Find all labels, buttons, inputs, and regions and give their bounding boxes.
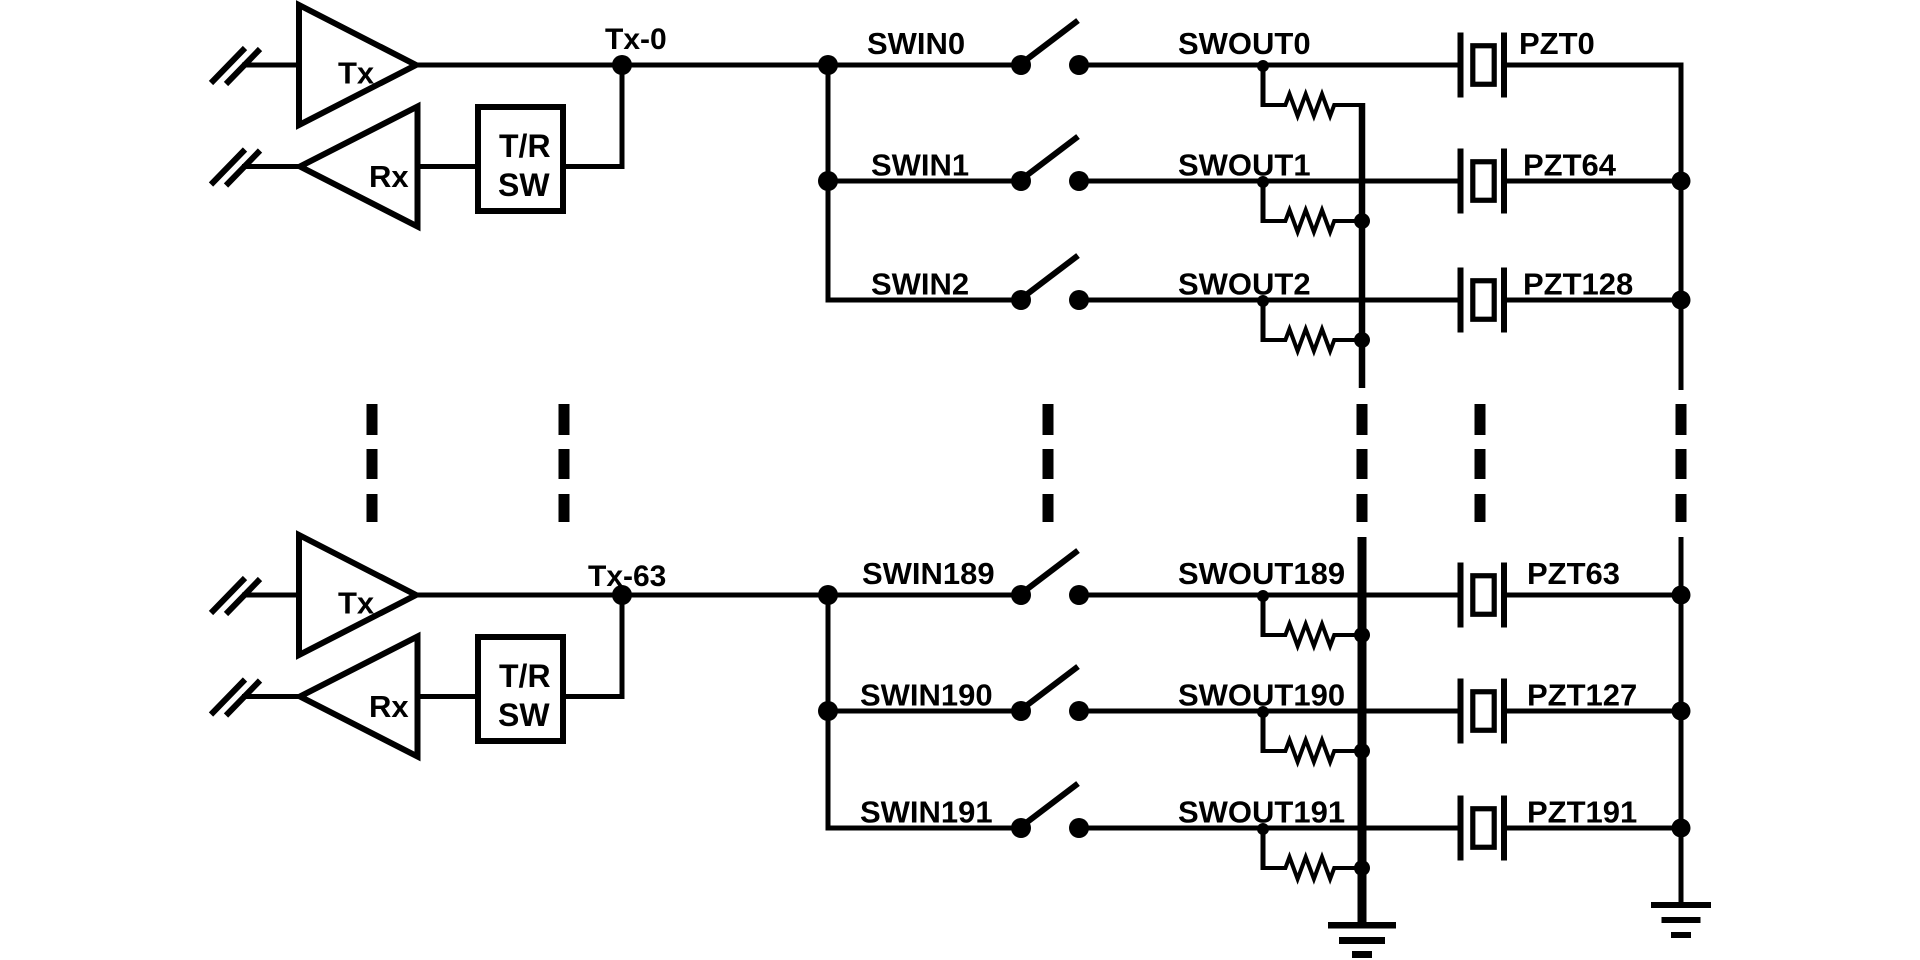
junction left bus row2 (top)	[818, 171, 838, 191]
svg-text:SWIN190: SWIN190	[860, 678, 993, 713]
junction resistor SWOUT190 to bias bus	[1354, 743, 1370, 759]
piezo element PZT63	[1461, 563, 1505, 628]
svg-text:SWOUT0: SWOUT0	[1178, 26, 1311, 61]
wire T/R SW to node (bottom)	[563, 595, 622, 697]
switch SWIN191	[1011, 784, 1089, 839]
junction left bus row2 (bottom)	[818, 701, 838, 721]
resistor R-SWOUT190	[1263, 740, 1362, 762]
ellipsis dashed column (amplifiers)	[367, 404, 378, 522]
wire right bus bottom segment	[1679, 537, 1684, 903]
junction right bus PZT64	[1672, 172, 1691, 191]
switch SWIN0	[1011, 21, 1089, 76]
junction tap SWOUT2	[1257, 295, 1269, 307]
wire tap drop SWOUT2	[1261, 300, 1266, 342]
svg-text:SWIN2: SWIN2	[871, 267, 969, 302]
wire PZT0 to right bus	[1504, 63, 1684, 68]
bus slash marks top Rx input	[211, 150, 260, 186]
wire left bus (top)	[826, 65, 831, 300]
wire tap drop SWOUT0	[1261, 65, 1266, 107]
wire bottom Rx input stub	[242, 694, 300, 699]
svg-text:Tx: Tx	[338, 56, 375, 91]
ellipsis dashed column (right bus)	[1676, 404, 1687, 522]
wire PZT127 to right bus	[1504, 709, 1684, 714]
svg-text:PZT128: PZT128	[1523, 267, 1633, 302]
wire SWOUT190 row	[1079, 709, 1461, 714]
junction resistor SWOUT191 to bias bus	[1354, 860, 1370, 876]
junction tap SWOUT191	[1257, 823, 1269, 835]
svg-text:SW: SW	[498, 697, 550, 733]
svg-text:SWIN191: SWIN191	[860, 795, 993, 830]
piezo element PZT127	[1461, 679, 1505, 744]
bus slash marks top Tx input	[211, 48, 260, 84]
svg-text:SWIN189: SWIN189	[862, 556, 995, 591]
piezo element PZT128	[1461, 268, 1505, 333]
wire SWIN191 row	[826, 826, 1022, 831]
wire top Rx input stub	[242, 164, 300, 169]
wire bottom Tx input stub	[242, 593, 300, 598]
wire tap drop SWOUT189	[1261, 595, 1266, 637]
junction resistor SWOUT2 to bias bus	[1354, 332, 1370, 348]
svg-text:PZT127: PZT127	[1527, 678, 1637, 713]
ground (bias bus)	[1328, 922, 1396, 958]
wire PZT64 to right bus	[1504, 179, 1684, 184]
piezo element PZT0	[1461, 33, 1505, 98]
svg-text:PZT191: PZT191	[1527, 795, 1637, 830]
junction right bus PZT63	[1672, 586, 1691, 605]
wire SWOUT189 row	[1079, 593, 1461, 598]
wire bias bus top segment	[1359, 103, 1366, 388]
switch SWIN1	[1011, 137, 1089, 192]
wire PZT191 to right bus	[1504, 826, 1684, 831]
wire T/R SW to node (top)	[563, 65, 622, 167]
junction tap SWOUT0	[1257, 60, 1269, 72]
resistor R-SWOUT191	[1263, 857, 1362, 879]
node Tx-0	[605, 23, 667, 75]
svg-text:Rx: Rx	[369, 689, 409, 724]
svg-text:Rx: Rx	[369, 159, 409, 194]
wire top Tx input stub	[242, 63, 300, 68]
wire bias bus bottom segment	[1358, 537, 1367, 922]
junction resistor SWOUT1 to bias bus	[1354, 213, 1370, 229]
piezo element PZT64	[1461, 149, 1505, 214]
wire Rx to T/R SW (top)	[418, 164, 479, 169]
wire Rx to T/R SW (bottom)	[418, 694, 479, 699]
svg-text:SWOUT189: SWOUT189	[1178, 556, 1345, 591]
svg-text:SWOUT2: SWOUT2	[1178, 267, 1311, 302]
wire right bus top segment	[1679, 63, 1684, 391]
wire tap drop SWOUT1	[1261, 181, 1266, 223]
junction resistor SWOUT189 to bias bus	[1354, 627, 1370, 643]
wire SWIN2 row	[826, 298, 1022, 303]
junction right bus PZT127	[1672, 702, 1691, 721]
svg-text:SW: SW	[498, 167, 550, 203]
switch SWIN190	[1011, 667, 1089, 722]
wire tap drop SWOUT190	[1261, 711, 1266, 753]
ellipsis dashed column (piezo)	[1475, 404, 1486, 522]
ellipsis dashed column (bias bus)	[1357, 404, 1368, 522]
svg-text:PZT0: PZT0	[1519, 26, 1595, 61]
amplifier Rx (bottom)	[300, 637, 418, 757]
wire left bus (bottom)	[826, 595, 831, 828]
junction right bus PZT128	[1672, 291, 1691, 310]
bus slash marks bottom Rx input	[211, 680, 260, 716]
wire SWIN190 row	[828, 709, 1021, 714]
node Tx-63	[588, 560, 666, 605]
svg-text:PZT63: PZT63	[1527, 556, 1620, 591]
junction left bus row1 (top)	[818, 55, 838, 75]
amplifier Tx (bottom)	[299, 535, 416, 655]
bus slash marks bottom Tx input	[211, 578, 260, 614]
amplifier Rx (top)	[300, 107, 418, 227]
block T/R SW (top)	[478, 107, 563, 211]
wire SWOUT1 row	[1079, 179, 1461, 184]
wire SWOUT0 row	[1079, 63, 1461, 68]
wire PZT128 to right bus	[1504, 298, 1684, 303]
svg-text:T/R: T/R	[499, 128, 551, 164]
wire SWOUT191 row	[1079, 826, 1461, 831]
wire SWIN1 row	[828, 179, 1021, 184]
junction tap SWOUT190	[1257, 706, 1269, 718]
ellipsis dashed column (switches)	[1043, 404, 1054, 522]
junction tap SWOUT189	[1257, 590, 1269, 602]
svg-text:Tx: Tx	[338, 586, 375, 621]
svg-text:SWIN0: SWIN0	[867, 26, 965, 61]
wire tap drop SWOUT191	[1261, 828, 1266, 870]
svg-text:Tx-63: Tx-63	[588, 560, 666, 593]
wire SWOUT2 row	[1079, 298, 1461, 303]
resistor R-SWOUT1	[1263, 210, 1362, 232]
switch SWIN2	[1011, 256, 1089, 311]
junction tap SWOUT1	[1257, 176, 1269, 188]
resistor R-SWOUT189	[1263, 624, 1362, 646]
svg-text:SWIN1: SWIN1	[871, 148, 969, 183]
wire Tx output row (top)	[416, 63, 1021, 68]
block T/R SW (bottom)	[478, 637, 563, 741]
switch SWIN189	[1011, 551, 1089, 606]
svg-text:SWOUT1: SWOUT1	[1178, 148, 1311, 183]
resistor R-SWOUT2	[1263, 329, 1362, 351]
ellipsis dashed column (T/R SW)	[559, 404, 570, 522]
resistor R-SWOUT0	[1263, 94, 1362, 116]
wire PZT63 to right bus	[1504, 593, 1684, 598]
wire Tx output row (bottom)	[416, 593, 1021, 598]
svg-text:Tx-0: Tx-0	[605, 23, 667, 56]
svg-text:PZT64: PZT64	[1523, 148, 1617, 183]
ground (right bus)	[1651, 902, 1711, 938]
piezo element PZT191	[1461, 796, 1505, 861]
svg-text:T/R: T/R	[499, 658, 551, 694]
amplifier Tx (top)	[299, 5, 416, 125]
junction left bus row1 (bottom)	[818, 585, 838, 605]
junction right bus PZT191	[1672, 819, 1691, 838]
